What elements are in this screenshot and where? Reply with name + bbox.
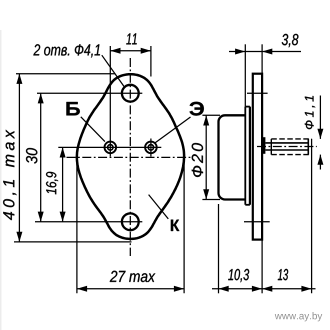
T:tF20 — [192, 143, 203, 177]
mounting hole top — [122, 85, 139, 102]
dimension 30 — [26, 93, 44, 222]
hole center tick top — [247, 92, 268, 94]
dimension 3,8 — [229, 34, 301, 55]
collector screw base — [262, 137, 265, 154]
T:t30 — [26, 148, 37, 164]
extension line dim 11 right — [150, 46, 152, 77]
extension line dim 11 left / pin hole B centerline — [109, 46, 111, 157]
T:t401 — [3, 130, 16, 220]
T:tK — [171, 220, 179, 231]
extension line 10,3 left (can left face) — [218, 204, 220, 293]
dimension 10,3 and 13 — [212, 269, 316, 292]
dimension 27 max — [77, 271, 184, 292]
side view: can body — [219, 115, 246, 199]
pin hole E (emitter) — [145, 142, 157, 154]
T:t27 — [110, 271, 155, 282]
pin hole E centerline — [150, 139, 152, 157]
T:t13 — [278, 269, 288, 280]
T:t2otv — [33, 44, 100, 57]
T:tF11 — [305, 96, 315, 129]
T:twm — [275, 312, 322, 321]
screw centerline — [257, 146, 317, 148]
side view: can skirt line / 3,8 extension — [244, 44, 246, 106]
package outline (TO-3 diamond body) — [77, 74, 184, 239]
flange right extension down (13) — [261, 240, 263, 294]
dimension 11 — [110, 33, 151, 53]
pin hole B (base) — [105, 142, 117, 154]
side view: mounting flange — [253, 74, 262, 240]
node: front view vertical centerline — [129, 58, 131, 256]
extension line 27 max right — [183, 159, 185, 294]
collector screw thread envelope — [271, 139, 311, 155]
T:tE — [189, 102, 203, 116]
T:t103 — [228, 269, 249, 282]
mounting hole bottom — [122, 213, 139, 230]
extension line 40,1 top — [16, 73, 116, 75]
T:t169 — [46, 172, 58, 194]
dimension 40,1 max — [3, 74, 22, 242]
T:t11 — [126, 33, 136, 44]
side view: skirt rim — [245, 107, 250, 205]
flange right extension up (3,8) — [261, 44, 263, 73]
node: front view horizontal centerline — [67, 156, 194, 158]
hole center tick bottom — [244, 221, 270, 223]
leader to top hole — [102, 55, 125, 87]
extension line through pin holes (dim 16,9) — [58, 146, 161, 148]
dimension 16,9 — [46, 147, 66, 222]
leader B — [81, 117, 105, 142]
extension line 40,1 bottom — [14, 241, 132, 243]
T:tB — [66, 102, 79, 115]
extension line 13 right (screw end) — [311, 139, 313, 293]
leader K — [149, 195, 169, 219]
left photo edge shading — [0, 30, 2, 330]
T:t38 — [282, 34, 299, 47]
collector screw shaft — [265, 142, 308, 144]
dimension F20 — [192, 115, 220, 199]
leader E — [155, 117, 190, 143]
dimension F1,1 — [305, 96, 324, 170]
extension line 27 max left — [76, 159, 78, 294]
extension line through bottom hole — [35, 221, 142, 223]
extension line through top hole (dim 30) — [37, 92, 142, 94]
